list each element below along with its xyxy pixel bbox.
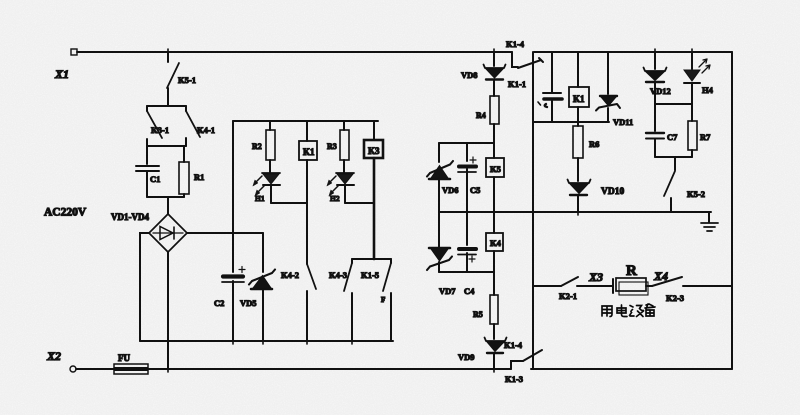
wire join bar [147,196,184,198]
svg-text:VD1-VD4: VD1-VD4 [111,212,149,222]
switch K5-2 [664,157,705,212]
ground [701,212,718,231]
resistor R7 [688,104,711,157]
resistor R3 [327,121,349,172]
svg-text:R2: R2 [252,142,262,151]
wire bottom bus right segment [531,368,732,370]
relay coil K5 [486,143,504,212]
label 用电设备 [602,304,655,317]
svg-text:K2-1: K2-1 [559,291,577,301]
svg-text:K1-4: K1-4 [506,39,525,49]
switch K2-3 [652,269,732,303]
wire bridge left to rail [140,233,149,341]
wire VD7 C4 branch bottom [439,271,494,273]
svg-text:K5: K5 [490,164,501,174]
svg-text:R: R [626,263,637,279]
svg-text:VD8: VD8 [461,70,478,80]
wire left column of middle block [232,121,234,233]
relay coil K4 [486,212,503,272]
wire mid horizontal line [439,211,711,213]
resistor R6 [573,122,599,181]
wire bridge bottom to N2 [167,252,169,369]
resistor R4 [476,96,499,143]
svg-text:K3-1: K3-1 [151,125,169,135]
diode VD8 [461,52,506,96]
switch K2-1 [533,277,578,301]
svg-text:VD5: VD5 [240,298,257,308]
wire parallel switch bracket top [352,258,391,260]
svg-text:X2: X2 [46,349,61,363]
wire center vertical bus [532,52,534,369]
svg-text:K1-4: K1-4 [504,340,523,350]
switch K3-1 [147,106,169,146]
svg-text:R4: R4 [476,111,486,120]
terminal X2 [46,349,76,372]
svg-text:C7: C7 [667,132,678,142]
svg-text:K4-3: K4-3 [329,270,347,280]
svg-text:K1: K1 [573,94,585,104]
relay coil K3 [364,121,383,259]
svg-text:X4: X4 [653,269,668,283]
capacitor C2 [214,233,245,341]
svg-text:VD6: VD6 [442,185,459,195]
svg-text:H1: H1 [255,194,265,203]
node X3 [577,270,613,293]
zener diode VD5 [240,233,275,341]
resistor R1 [179,146,204,197]
svg-text:K3: K3 [368,146,380,156]
wire to bridge top [167,197,169,214]
svg-text:K1-1: K1-1 [508,79,526,89]
resistor R5 [473,272,498,339]
svg-text:K1: K1 [303,147,315,157]
resistor R2 [252,121,275,172]
capacitor C4 [458,212,476,296]
wire H2 to K3 column [345,202,374,204]
wire node to VD6 C5 branch top [439,142,494,144]
svg-text:R7: R7 [700,132,711,142]
svg-text:F: F [381,296,385,304]
svg-text:R1: R1 [194,172,204,182]
zener diode VD7 [427,212,456,296]
switch K1-5 [361,259,391,341]
svg-text:C4: C4 [464,286,475,296]
svg-text:AC220V: AC220V [44,207,87,219]
svg-text:H4: H4 [702,85,714,95]
svg-text:VD12: VD12 [650,86,671,96]
wire H1 to K1 column [271,202,307,204]
wire DC negative rail [140,340,393,342]
switch K4-1 [186,106,215,146]
svg-text:C2: C2 [214,298,224,308]
svg-text:R5: R5 [473,310,483,319]
terminal X1 [54,49,77,81]
svg-text:K4: K4 [490,238,502,248]
switch K1-3 on bottom bus [504,340,542,384]
capacitor C5 [458,143,480,212]
capacitor C7 [646,104,678,157]
svg-text:VD9: VD9 [458,352,475,362]
svg-text:K4-1: K4-1 [197,125,215,135]
svg-text:C5: C5 [470,185,480,195]
switch K1-1 on top bus [506,39,543,89]
svg-text:R6: R6 [589,139,599,149]
relay coil K1 (top) [569,52,589,122]
svg-text:K2-3: K2-3 [666,293,684,303]
zener diode VD11 [596,52,633,127]
switch K4-2 [281,264,316,341]
diode VD10 [568,180,625,213]
svg-text:X1: X1 [54,67,69,81]
svg-text:K1-3: K1-3 [505,374,523,384]
switch K4-3 [329,259,352,341]
svg-text:VD10: VD10 [601,187,624,197]
wire bridge right DC+ [187,232,263,234]
wire K1 coil group bottom bar [533,121,609,123]
diode VD12 [644,52,671,104]
LED H1 [253,173,280,203]
svg-text:VD7: VD7 [439,286,456,296]
paper noise [0,0,1,1]
svg-text:K4-2: K4-2 [281,270,299,280]
wire split bar bottom [147,145,186,147]
resistor R (load) [616,263,652,295]
bridge rectifier VD1-VD4 [149,214,187,252]
svg-text:FU: FU [118,353,130,363]
fuse FU [114,353,148,374]
svg-text:C1: C1 [150,174,160,184]
wire bottom bus left segment N2 [76,368,511,370]
zener diode VD6 [427,143,459,212]
wire middle block top edge [233,120,378,122]
LED H4 [684,52,714,104]
LED H2 [327,173,354,203]
switch K5-1 [167,52,196,106]
wire VD12 H4 connector [655,103,692,105]
capacitor C1 [136,146,160,197]
svg-text:R3: R3 [327,142,337,151]
wire split bar top [147,105,186,107]
capacitor C6 [538,52,562,122]
svg-text:X3: X3 [588,270,603,284]
diode VD9 [458,338,507,370]
svg-text:K5-2: K5-2 [687,189,705,199]
wire C7 R7 bottom bar [655,156,692,158]
wire top bus left segment N1 [77,51,512,53]
svg-text:H2: H2 [330,194,340,203]
wire top bus right segment [534,51,732,53]
svg-text:K5-1: K5-1 [178,75,196,85]
relay coil K1 (left block) [299,121,317,264]
svg-text:VD11: VD11 [613,117,633,127]
svg-text:K1-5: K1-5 [361,270,379,280]
junction node ticks [168,49,692,372]
wire right vertical bus [731,52,733,369]
